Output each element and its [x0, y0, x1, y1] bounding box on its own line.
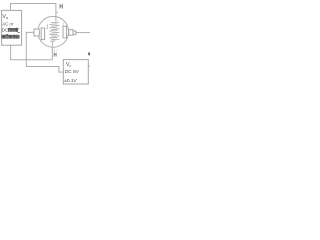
wire tube bottom lead [51, 47, 53, 60]
power supply box Va (AC or DC high voltage, adjustable) [2, 10, 22, 45]
filament zigzag coil [51, 21, 59, 24]
wire top: box top to tube top lead [11, 4, 56, 17]
svg-text:H: H [54, 52, 58, 59]
tube left window protrusion [34, 29, 39, 36]
glyph 调 [9, 35, 12, 38]
faint pin tick above right electrode [63, 22, 65, 26]
right stem connector outer [69, 30, 73, 36]
wire bottom-left: box bottom to tube bottom lead [11, 45, 53, 60]
glyph 压 [12, 28, 15, 31]
wire left electrode to DC box left terminal [26, 32, 63, 72]
glyph 源 [16, 35, 19, 39]
left electrode plate [41, 28, 44, 40]
svg-text:Va: Va [2, 14, 8, 20]
wire DC box right terminal to right edge [88, 65, 90, 67]
glyph 电 [15, 28, 18, 32]
svg-text:AC or: AC or [2, 21, 13, 26]
glyph 压 (line 4) [2, 35, 5, 38]
svg-text:DC: DC [2, 28, 8, 33]
glyph 电 [13, 35, 16, 39]
svg-text:+: + [17, 26, 20, 31]
filament top lead [55, 17, 57, 22]
svg-text:4: 4 [56, 11, 58, 15]
DC supply box Vc DC 5V ±0.1V [63, 60, 88, 84]
svg-text:±0.1V: ±0.1V [64, 78, 77, 84]
tube envelope circle [38, 16, 69, 47]
glyph 高 [8, 28, 11, 32]
svg-text:Vc: Vc [66, 62, 72, 68]
wire right electrode out to right edge [76, 32, 90, 34]
right stem connector inner [73, 31, 76, 34]
svg-text:1: 1 [46, 25, 49, 31]
right electrode plate [63, 26, 67, 38]
svg-text:DC 5V: DC 5V [65, 69, 80, 75]
glyph 可 [6, 35, 9, 39]
minus mark [18, 32, 20, 34]
svg-text:H: H [59, 4, 63, 11]
cut-off character at right edge [88, 53, 90, 56]
